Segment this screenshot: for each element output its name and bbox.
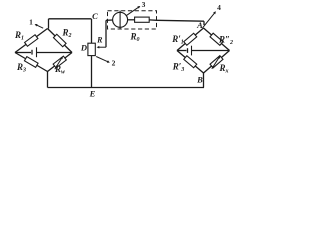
svg-text:3: 3 xyxy=(142,0,146,9)
svg-text:4: 4 xyxy=(217,3,221,12)
svg-text:R: R xyxy=(96,36,103,45)
svg-text:1: 1 xyxy=(29,18,33,27)
svg-text:A: A xyxy=(196,20,203,30)
svg-text:2: 2 xyxy=(112,59,116,68)
svg-text:B: B xyxy=(196,75,203,85)
svg-text:C: C xyxy=(92,11,98,21)
svg-text:E: E xyxy=(89,89,96,99)
svg-text:D: D xyxy=(80,43,87,53)
